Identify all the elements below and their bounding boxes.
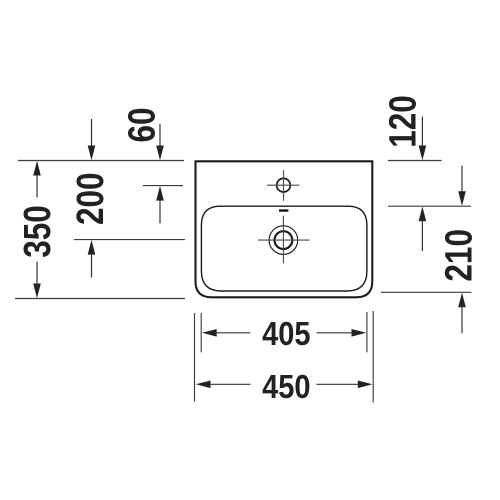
dim 405 left arrow	[202, 329, 217, 337]
svg-text:450: 450	[262, 368, 310, 405]
extension line bottom 405 left	[200, 313, 202, 352]
dim 200 lower arrow (below drain line, pointing up)	[88, 240, 96, 255]
dim 450 left arrow	[196, 381, 211, 389]
extension line drain center left	[74, 239, 185, 241]
dim 350 lower arrow	[33, 284, 41, 299]
faucet hole circle	[277, 178, 291, 192]
dim 200 upper arrow (above line, pointing down)	[91, 119, 93, 148]
extension line bottom 450 right	[372, 311, 374, 402]
svg-text:60: 60	[121, 107, 163, 142]
drain inner circle	[275, 231, 293, 249]
dim 210 upper arrow	[461, 166, 463, 194]
extension line basin-top right	[388, 205, 471, 207]
sink inner basin	[201, 206, 367, 291]
svg-text:120: 120	[382, 95, 424, 148]
dim 210 lower arrow	[458, 293, 466, 308]
extension line top-left	[18, 160, 184, 162]
extension line top-right	[388, 160, 442, 162]
overflow dash	[279, 209, 288, 211]
dim 450 right arrow	[317, 383, 360, 385]
svg-text:405: 405	[262, 315, 310, 352]
drain crosshair horizontal	[258, 239, 309, 241]
extension line bottom 405 right	[366, 312, 368, 352]
sink outer outline	[196, 161, 373, 297]
faucet crosshair vertical	[283, 170, 285, 201]
extension line bottom-left	[15, 298, 185, 300]
dim 120 upper arrow	[421, 117, 423, 148]
dim 405 right arrow	[317, 332, 354, 334]
dim 60 upper arrow	[159, 124, 161, 148]
faucet crosshair horizontal	[267, 184, 299, 186]
dim 60 lower arrow	[156, 186, 164, 201]
svg-text:200: 200	[69, 172, 111, 225]
drain outer circle	[269, 226, 298, 255]
dim 120 lower arrow	[419, 207, 427, 222]
dim 350 upper arrow	[33, 161, 41, 176]
svg-text:350: 350	[16, 205, 58, 258]
svg-text:210: 210	[438, 229, 480, 282]
extension line faucet center left	[143, 185, 183, 187]
drain crosshair vertical	[282, 216, 284, 264]
extension line bottom 450 left	[194, 313, 196, 402]
extension line basin-bottom right	[381, 291, 472, 293]
